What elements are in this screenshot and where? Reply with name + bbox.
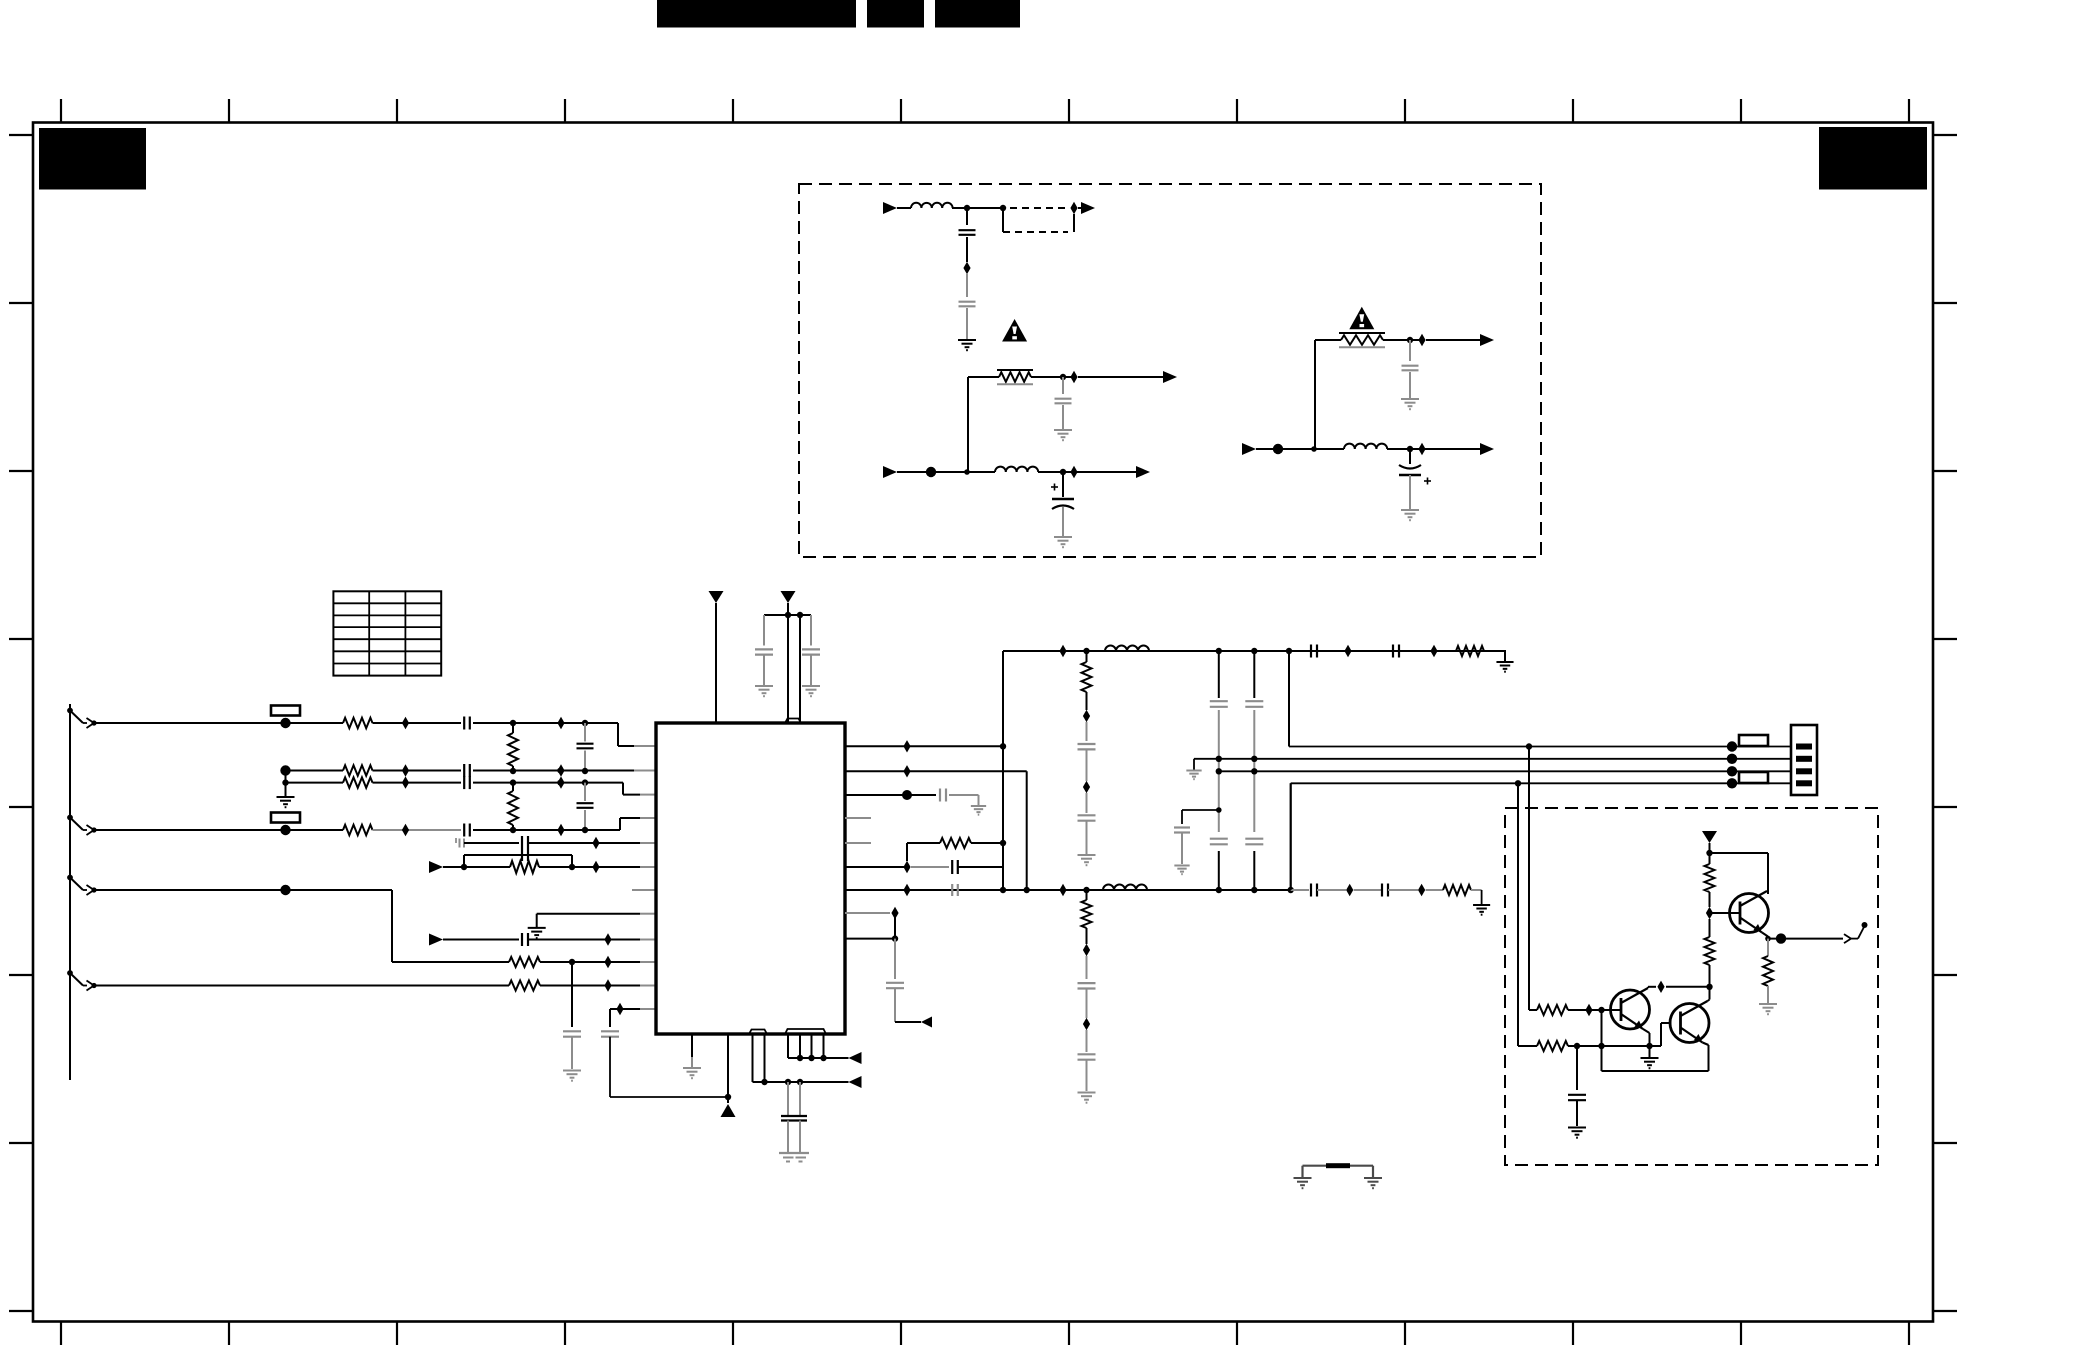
resistor R9 — [1456, 646, 1484, 656]
jumper left leg — [1294, 1166, 1312, 1189]
capacitor C2 chain — [577, 723, 594, 771]
capacitor C17 chain — [886, 939, 904, 1022]
wire row867 c — [958, 866, 1003, 868]
wire Q1 emitter — [1643, 1029, 1650, 1057]
junction node B3 — [1407, 446, 1413, 452]
wire Q2 collector — [1708, 987, 1710, 1001]
big node line1 conn — [1727, 741, 1737, 751]
input arrow A2b — [883, 466, 897, 478]
wire A-res-right — [1031, 376, 1074, 378]
signal table grid — [333, 591, 441, 675]
diamond row985 — [604, 979, 611, 991]
junction v1003 row890 — [1000, 887, 1006, 893]
junction pin729 — [725, 1094, 731, 1100]
capacitor C20 — [1078, 744, 1096, 749]
wire row770 into IC — [634, 770, 656, 772]
wire Q3 coll rail — [1710, 853, 1769, 894]
junction node A2 — [1000, 205, 1006, 211]
capacitor C27 — [1245, 839, 1263, 845]
ground A2-shunt — [1054, 537, 1072, 547]
wire row782 c — [473, 782, 623, 784]
big node row723 — [280, 718, 290, 728]
ground R16 — [1759, 1004, 1777, 1014]
wire A-alt up — [1073, 214, 1075, 232]
wire Q2 base path — [1661, 1023, 1672, 1046]
dashed alt wire A — [1003, 231, 1068, 233]
output arrow A2 — [1163, 371, 1177, 383]
big node row770 — [280, 765, 290, 775]
output arrow B1 — [1480, 334, 1494, 346]
big node row890L — [280, 885, 290, 895]
wire row867 mid — [539, 866, 640, 868]
diamond chain1087 a — [1083, 710, 1090, 722]
wire row843 into IC — [640, 842, 656, 844]
diamond row867R — [903, 861, 910, 873]
wire V3 stem — [1709, 843, 1711, 864]
wire stub1182 — [1182, 809, 1219, 811]
wire chain1087d c — [1086, 1030, 1088, 1052]
redacted title block bar 1 — [657, 0, 856, 28]
fusible resistor R-B — [1339, 333, 1385, 347]
resistor R11 vertical — [1082, 890, 1092, 944]
wire row723 into IC — [634, 745, 656, 747]
polarized capacitor C-B2 — [1399, 465, 1421, 475]
junction row890 1026 — [1023, 887, 1029, 893]
ground IC pin — [683, 1068, 701, 1078]
jumper bar — [1303, 1163, 1374, 1168]
capacitor C6 — [464, 824, 470, 837]
wire row782 into IC — [640, 794, 656, 796]
wire v1291 dn — [1290, 783, 1292, 890]
junction row651 1218 — [1216, 648, 1222, 654]
wire row890 jog — [392, 890, 509, 962]
wire B-shunt — [1409, 449, 1411, 464]
connector label box 1 — [1739, 735, 1768, 746]
capacitor C12 chain — [802, 615, 820, 685]
inductor L2 — [1103, 885, 1147, 890]
wire row771 down — [1026, 771, 1028, 890]
wire v1291 up — [1288, 651, 1290, 747]
IC bottom notch 2 — [785, 1029, 826, 1034]
resistor R4 — [343, 777, 373, 787]
bottom ruler tick marks — [61, 1322, 1909, 1345]
junction r1082 b — [785, 1079, 791, 1085]
diamond row962 — [604, 956, 611, 968]
resistor R6 — [343, 825, 373, 835]
wire row1046 — [1568, 1045, 1661, 1047]
junction line3 a — [1216, 768, 1222, 774]
wire lad mid — [1709, 919, 1711, 937]
wire V1 stem — [715, 603, 717, 723]
ground stub row913 — [528, 914, 546, 938]
big node line3 conn — [1727, 766, 1737, 776]
resistor R18 — [509, 957, 540, 967]
ground stub1182 — [1174, 866, 1189, 875]
junction r1082 a — [761, 1079, 767, 1085]
wire row651 — [1003, 650, 1506, 652]
wire Q3 em out — [1768, 938, 1843, 940]
wire row913 into IC — [640, 913, 656, 915]
wire B-shunt2 — [1409, 475, 1411, 509]
wire row890 chain c — [1354, 889, 1382, 891]
wire V2 down2 — [799, 615, 801, 723]
junction row1046 b — [1598, 1043, 1604, 1049]
junction line2 a — [1216, 756, 1222, 762]
wire row890 chain a — [1291, 889, 1309, 891]
redacted title block bar 2 — [867, 0, 924, 28]
output arrow A1 — [1081, 202, 1095, 214]
wire row782 b — [373, 782, 462, 784]
wire row651 gnd — [1504, 651, 1506, 661]
diamond node B2 — [1418, 334, 1425, 346]
bus tap connector 1 — [67, 708, 97, 728]
wire row913 — [537, 913, 640, 915]
capacitor C-B1 — [1402, 366, 1419, 371]
wire Q3 emitter — [1762, 933, 1768, 939]
wire row782 jog — [623, 783, 640, 795]
wire v895 — [894, 913, 896, 939]
resistor R14 vertical — [1705, 864, 1715, 907]
capacitor C21 — [1078, 815, 1096, 820]
junction row830 c2 — [582, 827, 588, 833]
wire A1c — [1078, 207, 1081, 209]
bus tap connector 3 — [67, 875, 97, 895]
wire A-shunt2 — [966, 237, 968, 262]
fusible resistor R-A — [997, 370, 1033, 384]
transistor Q1 — [1611, 988, 1650, 1029]
junction row782 c2 — [582, 779, 588, 785]
junction row651 1254 — [1251, 648, 1257, 654]
wire gnd pair — [285, 771, 287, 797]
capacitor C13 pair — [781, 1082, 807, 1153]
capacitor C10 chain — [601, 1009, 619, 1097]
big node line2 conn — [1727, 754, 1737, 764]
inductor L-A2 — [995, 467, 1038, 472]
big node row830 — [280, 825, 290, 835]
wire B-res-right — [1383, 339, 1422, 341]
diamond row913R — [891, 907, 898, 919]
wire B-c1 — [1409, 340, 1411, 361]
capacitor C1 — [464, 717, 470, 730]
wire row890 chain d — [1388, 889, 1418, 891]
polarized capacitor C-A4 — [1052, 499, 1074, 509]
wire A-shunt4 — [966, 308, 968, 339]
junction node A6 — [1060, 469, 1066, 475]
diamond q-base1 — [1585, 1004, 1592, 1016]
junction row938R — [892, 935, 898, 941]
ground C11 — [755, 686, 773, 696]
big node row795 — [902, 790, 912, 800]
wire Q-coll rail — [1666, 986, 1710, 988]
wire row962 a — [540, 961, 566, 963]
wire row830 a — [92, 829, 343, 831]
wire chain1087d d — [1086, 1060, 1088, 1091]
wire A2-mid — [967, 471, 995, 473]
wire row746R — [845, 745, 1003, 747]
wire row938R — [845, 938, 895, 940]
right ruler tick marks — [1933, 135, 1957, 1311]
capacitor C28 chain — [1174, 810, 1190, 864]
IC gnd pin wire — [691, 1034, 693, 1067]
diamond chain1087d a — [1083, 944, 1090, 956]
resistor R12 — [1537, 1005, 1568, 1015]
input arrow row867 — [429, 861, 443, 873]
wire B-res-out — [1426, 339, 1480, 341]
resistor R8 — [907, 838, 1003, 848]
junction r1058 b — [808, 1055, 814, 1061]
junction A-in2 — [964, 469, 970, 475]
junction Q3 em — [1765, 936, 1771, 942]
junction V3 — [1706, 850, 1712, 856]
bus line3 — [1219, 770, 1791, 772]
wire row795 b — [949, 794, 979, 796]
diamond row890 c — [1346, 884, 1353, 896]
capacitor C19 — [1393, 645, 1399, 658]
ground row795 — [971, 806, 986, 815]
transistor Q3 — [1730, 891, 1769, 933]
wire row771R — [845, 770, 1027, 772]
capacitor C8 — [522, 933, 528, 946]
junction B-j — [1311, 446, 1317, 452]
splice dot row770 — [557, 768, 563, 774]
wire rail1082 — [756, 1081, 849, 1083]
diamond row723 — [402, 717, 409, 729]
junction row651 1087 — [1083, 648, 1089, 654]
wire A-res-out — [1078, 376, 1163, 378]
wire row830 b — [373, 829, 462, 831]
bus tap connector 2 — [67, 815, 97, 835]
connector J1 body — [1791, 725, 1817, 795]
wire row723 b — [373, 722, 462, 724]
output arrow B2 — [1480, 443, 1494, 455]
junction r1058 a — [797, 1055, 803, 1061]
capacitor C-A3 — [1055, 399, 1072, 404]
wire row890 up — [1290, 783, 1292, 890]
junction line2 b — [1251, 756, 1257, 762]
junction row1046 a — [1574, 1043, 1580, 1049]
resistor R13 — [1537, 1041, 1568, 1051]
wire row890 chain e — [1426, 889, 1443, 891]
redacted title block bar 3 — [935, 0, 1020, 28]
junction row890 1218 — [1216, 887, 1222, 893]
capacitor C25 — [1210, 839, 1228, 845]
wire row830 c — [473, 829, 620, 831]
capacitor C24 — [1210, 701, 1228, 707]
wire A-c3 — [1062, 377, 1064, 394]
wire B-c1b — [1409, 372, 1411, 398]
IC bottom notch 1 — [749, 1030, 767, 1035]
warning triangle A — [1002, 319, 1027, 342]
diamond row651 a — [1059, 645, 1066, 657]
diamond node A3 — [963, 262, 970, 274]
IC left stub row890 — [632, 889, 656, 891]
connector box row723 — [271, 706, 300, 716]
wire V2 down1 — [787, 615, 789, 723]
arrow rail1082 — [849, 1076, 862, 1088]
wire A1a — [897, 207, 911, 209]
wire row795R — [845, 794, 936, 796]
ground chain1087 — [1078, 855, 1096, 865]
capacitor C15 — [952, 860, 958, 874]
ground row651 — [1496, 662, 1513, 672]
wire row962 into IC — [640, 961, 656, 963]
big node A-in — [926, 467, 936, 477]
wire Q1 collector — [1648, 987, 1656, 988]
diamond row890R — [903, 884, 910, 896]
wire A-c3b — [1062, 405, 1064, 429]
wire row830 jog — [620, 818, 640, 830]
wire row1009 into IC — [640, 1008, 656, 1010]
inductor L3 — [1105, 646, 1149, 652]
diamond row1009 — [616, 1003, 623, 1015]
dashed link wire A — [1010, 207, 1066, 209]
wire q-line1 down — [1529, 747, 1537, 1011]
wire chain1087 a — [1086, 722, 1088, 741]
junction node A1 — [964, 205, 970, 211]
diamond node B4 — [1418, 443, 1425, 455]
diamond node A1 — [1070, 202, 1077, 214]
junction line3 b — [1251, 768, 1257, 774]
dashed transistor enclosure — [1505, 808, 1878, 1165]
resistor R10 vertical — [1082, 651, 1092, 710]
junction row651 1289 — [1286, 648, 1292, 654]
diamond chain1087d b — [1083, 1018, 1090, 1030]
wire row985 — [92, 985, 509, 987]
capacitor C4 — [464, 776, 470, 789]
diamond row782 — [402, 776, 409, 788]
wire row939 into IC — [640, 939, 656, 941]
bus line2 — [1194, 758, 1791, 760]
IC pin765 wire — [764, 1034, 766, 1082]
power arrow V3 — [1702, 831, 1717, 843]
junction row746R — [1000, 743, 1006, 749]
plus sign cap B — [1424, 478, 1431, 485]
junction row890 1087 — [1083, 887, 1089, 893]
wire row867 b — [911, 866, 949, 868]
warning triangle B — [1349, 307, 1374, 330]
junction Q-coll — [1706, 984, 1712, 990]
wire row723 a — [92, 722, 343, 724]
capacitor C29 chain — [1568, 1046, 1586, 1126]
vertical wire 1254 — [1253, 651, 1255, 890]
wire A2-shunt2 — [1062, 507, 1064, 536]
IC pin753 wire — [753, 1034, 757, 1082]
IC pin811 wire — [811, 1034, 813, 1058]
ground C9 — [563, 1071, 581, 1081]
IC pin729 wire — [727, 1034, 729, 1103]
splice dot row782 — [557, 780, 563, 786]
wire row939 a — [443, 939, 519, 941]
wire V2 rail — [764, 614, 811, 616]
capacitor C14 — [940, 789, 946, 802]
diamond Q-coll — [1657, 981, 1664, 993]
ground A-shunt — [958, 340, 976, 350]
ground B-shunt — [1401, 510, 1419, 520]
wire A2-out — [1038, 471, 1136, 473]
junction row782 r — [510, 779, 516, 785]
resistor R19 — [509, 981, 540, 991]
junction R8 right — [1000, 840, 1006, 846]
wire A2-shunt — [1062, 472, 1064, 497]
wire chain1087 b — [1086, 749, 1088, 781]
diamond row651 c — [1430, 645, 1437, 657]
wire row830 into IC — [640, 817, 656, 819]
IC right stub 818 — [845, 817, 871, 819]
ground A-c3 — [1054, 430, 1072, 440]
wire row867 in — [443, 866, 510, 868]
wire rail1097 — [610, 1096, 728, 1098]
capacitor C30 — [1311, 884, 1317, 897]
ground chain1087d — [1078, 1093, 1096, 1103]
capacitor C26 — [1245, 701, 1263, 707]
junction row890 1291 — [1288, 887, 1294, 893]
junction node B1 — [1407, 337, 1413, 343]
junction row890 1254 — [1251, 887, 1257, 893]
junction q1010 — [1598, 1007, 1604, 1013]
wire row1009 — [610, 1008, 640, 1010]
junction stub1182 — [1216, 807, 1222, 813]
inductor L-B — [1344, 444, 1387, 449]
IC pin788 wire — [788, 1034, 791, 1058]
stub capacitor row843 — [456, 838, 464, 848]
wire Q3 base — [1710, 912, 1741, 914]
input arrow row939 — [429, 934, 443, 946]
wire R12 out — [1568, 1009, 1621, 1011]
transistor Q2 — [1670, 1001, 1709, 1045]
resistor R1 — [343, 718, 373, 728]
capacitor C-A2 — [959, 302, 976, 307]
ground C12 — [802, 686, 820, 696]
wire row770 b — [373, 770, 462, 772]
junction row867 R — [569, 864, 575, 870]
connector box row830 — [271, 813, 300, 823]
ground row pair — [277, 797, 295, 807]
resistor R2 vertical — [508, 723, 518, 771]
wire line2 gndstub — [1193, 759, 1195, 770]
wire row985 b — [540, 985, 640, 987]
vertical wire 1218 — [1218, 651, 1220, 890]
junction row1046 c — [1646, 1043, 1652, 1049]
resistor R15 vertical — [1705, 937, 1715, 987]
IC right stub 843 — [845, 842, 871, 844]
diamond row651 b — [1344, 645, 1351, 657]
ground B-c1 — [1401, 399, 1419, 409]
junction r1082 c — [797, 1079, 803, 1085]
small node row782 — [282, 779, 288, 785]
capacitor C-A1 — [959, 230, 976, 235]
plus sign cap A — [1051, 484, 1058, 491]
redacted zone label top-left — [39, 128, 146, 190]
diamond chain1087 b — [1083, 781, 1090, 793]
bus line1 — [1289, 746, 1791, 748]
IC pin823 wire — [823, 1034, 825, 1058]
output arrow A3 — [1136, 466, 1150, 478]
top ruler tick marks — [61, 99, 1909, 123]
junction row962 — [569, 959, 575, 965]
wire row782 a — [286, 782, 344, 784]
capacitor C7 tall — [522, 836, 528, 861]
junction row723 c2 — [582, 720, 588, 726]
capacitor C5 chain — [577, 783, 594, 830]
wire rail1058 — [791, 1057, 849, 1059]
capacitor C9 chain — [563, 962, 581, 1069]
IC U1 body — [656, 723, 845, 1034]
diamond row939 — [604, 933, 611, 945]
wire row890 chain b — [1317, 889, 1346, 891]
bypass loop wire — [464, 855, 572, 867]
ground Q1 emitter — [1641, 1058, 1659, 1068]
left bus wire — [69, 704, 71, 1080]
